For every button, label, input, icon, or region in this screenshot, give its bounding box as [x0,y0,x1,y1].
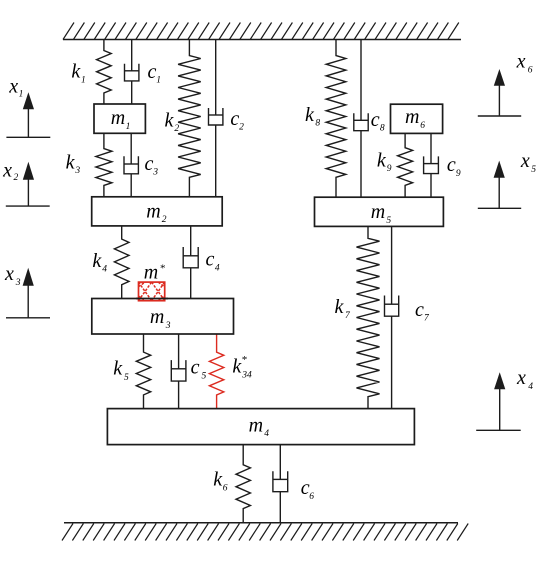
spring k34* [209,334,223,409]
svg-text:x: x [2,159,12,181]
label x1 [8,75,23,99]
svg-text:c: c [191,357,200,379]
svg-text:2: 2 [162,215,167,225]
svg-text:x: x [520,150,530,172]
spring k2 [178,40,201,197]
svg-text:1: 1 [19,90,24,100]
svg-text:9: 9 [387,164,392,174]
svg-text:k: k [71,61,81,83]
coordinate arrow x2 [6,162,50,206]
mass m6 [391,104,443,133]
damper c3 [124,133,138,197]
svg-text:5: 5 [386,216,391,226]
label m3 [150,306,171,331]
svg-text:4: 4 [102,265,107,275]
spring k1 [97,40,112,105]
svg-text:k: k [305,104,315,126]
svg-text:k: k [113,358,123,380]
svg-text:m: m [371,201,385,223]
damper c6 [273,445,288,523]
label c6 [301,477,315,502]
svg-text:7: 7 [424,314,430,324]
svg-text:3: 3 [15,278,21,288]
damper c1 [125,40,139,105]
damper c7 [385,226,399,408]
label c4 [206,249,220,274]
spring k8 [326,40,346,198]
svg-text:5: 5 [124,373,129,383]
label k2 [165,109,180,134]
mass m1 [94,104,145,133]
svg-text:6: 6 [528,66,533,76]
label m5 [371,201,392,226]
spring k9 [398,133,413,197]
svg-text:m: m [405,106,419,128]
label x6 [516,51,533,76]
svg-text:m: m [150,306,164,328]
svg-text:6: 6 [309,492,314,502]
svg-text:c: c [147,61,156,83]
coordinate arrow x4 [476,372,521,430]
mass m5 [315,197,444,226]
floor (ground) hatching [62,524,468,541]
ceiling line [63,39,461,41]
label c7 [415,299,430,324]
label k7 [334,296,351,321]
svg-text:c: c [447,154,456,176]
svg-text:2: 2 [14,173,19,183]
svg-text:m: m [249,414,263,436]
ceiling (fixed support) hatching [63,23,459,40]
svg-text:c: c [206,249,215,271]
label c2 [230,108,244,133]
label k6 [213,469,227,494]
label k5 [113,358,129,383]
svg-text:k: k [92,250,102,272]
svg-text:*: * [241,354,247,366]
label x5 [520,150,536,175]
svg-text:5: 5 [202,372,207,382]
label x2 [2,159,18,183]
label k1 [71,61,85,86]
svg-text:8: 8 [315,119,320,129]
coordinate arrow x3 [6,268,50,318]
svg-text:k: k [66,151,76,173]
svg-text:8: 8 [380,123,385,133]
label m4 [249,414,270,439]
svg-text:c: c [144,153,153,175]
coordinate arrow x5 [478,161,521,209]
svg-text:k: k [165,109,175,131]
label c8 [371,109,385,133]
damper c9 [424,133,439,197]
svg-text:3: 3 [165,321,171,331]
svg-text:m: m [146,200,160,222]
svg-text:m: m [111,107,125,129]
coordinate arrow x1 [6,92,50,137]
svg-text:34: 34 [241,371,252,381]
svg-text:k: k [334,296,344,318]
svg-text:2: 2 [174,124,179,134]
svg-text:9: 9 [456,169,461,179]
svg-text:c: c [371,109,380,131]
label c9 [447,154,461,179]
spring k7 [357,226,380,408]
label c1 [147,61,160,86]
label k3 [66,151,81,176]
floor line [64,522,458,524]
svg-text:6: 6 [223,483,228,493]
label k4 [92,250,107,275]
svg-text:4: 4 [264,429,269,439]
coordinate arrow x6 [478,69,521,116]
label x3 [4,263,21,288]
svg-text:7: 7 [345,311,351,321]
svg-text:3: 3 [74,166,80,176]
label k34* [232,354,252,381]
label m6 [405,106,425,131]
label m1 [111,107,131,132]
svg-text:x: x [516,367,526,389]
svg-text:x: x [8,75,18,97]
svg-text:1: 1 [126,122,131,132]
svg-text:6: 6 [420,121,425,131]
svg-text:*: * [160,263,166,275]
svg-text:3: 3 [152,168,158,178]
svg-text:4: 4 [528,382,533,392]
svg-text:m: m [144,261,158,283]
damper c5 [171,334,186,409]
svg-text:4: 4 [215,264,220,274]
label k9 [377,149,392,174]
spring k5 [136,334,150,409]
svg-text:c: c [415,299,424,321]
damper c2 [209,40,223,197]
mass m2 [92,197,223,226]
spring k6 [236,445,250,523]
damper c4 [183,226,198,299]
svg-text:1: 1 [81,75,86,85]
svg-text:5: 5 [531,165,536,175]
spring k3 [96,133,112,197]
svg-text:x: x [516,51,526,73]
label m2 [146,200,167,225]
label x4 [516,367,533,392]
svg-text:k: k [377,149,387,171]
mass m3 [92,299,234,335]
svg-text:x: x [4,263,14,285]
svg-text:1: 1 [156,76,161,86]
label m* [144,261,166,283]
spring k4 [114,226,129,299]
damper c8 [354,40,368,198]
svg-text:2: 2 [239,123,244,133]
mass m4 [107,409,414,445]
label c5 [191,357,207,382]
label c3 [144,153,158,178]
svg-text:c: c [230,108,239,130]
label k8 [305,104,320,129]
m3 top edge over m* [136,298,168,300]
